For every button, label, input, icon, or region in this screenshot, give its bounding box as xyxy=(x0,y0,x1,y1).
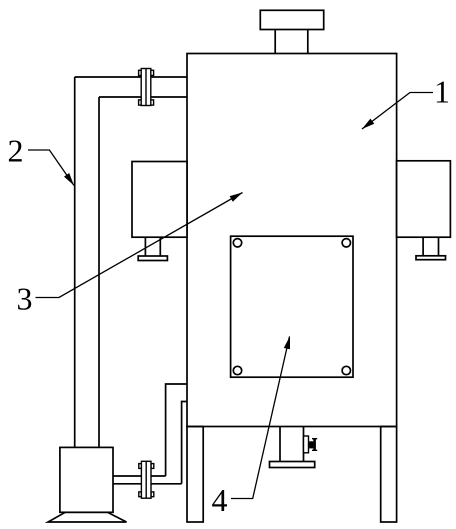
label 4 leader xyxy=(231,337,290,499)
top pipe flange plates xyxy=(141,69,151,106)
label 2 leader xyxy=(28,150,74,186)
svg-text:3: 3 xyxy=(17,281,33,317)
top nozzle neck xyxy=(275,30,308,54)
label 3 leader xyxy=(36,193,243,298)
panel 4 xyxy=(231,236,353,377)
left vertical pipe xyxy=(75,77,99,447)
tank body 1 xyxy=(187,54,397,427)
left box support foot xyxy=(138,256,167,261)
right box support foot xyxy=(416,256,446,260)
arrowhead 1 xyxy=(362,119,374,129)
bottom pipe flange bolts xyxy=(139,464,154,497)
svg-text:4: 4 xyxy=(212,482,228,518)
drain valve stem xyxy=(309,443,314,445)
riser pipe xyxy=(166,384,187,484)
label 1 leader xyxy=(362,93,433,130)
right box xyxy=(397,161,451,237)
arrowhead 3 xyxy=(230,193,243,202)
arrowhead 2 xyxy=(64,173,74,186)
bottom pipe flange plates xyxy=(141,461,151,498)
svg-text:2: 2 xyxy=(8,133,24,169)
drain valve handle xyxy=(313,439,316,451)
drain outlet body xyxy=(280,427,304,462)
left inlet pipe horizontal xyxy=(75,77,187,97)
pump body xyxy=(60,447,113,512)
top pipe flange bolts xyxy=(139,70,154,105)
left box xyxy=(132,162,187,238)
panel bolt hole top-right xyxy=(342,239,350,247)
drain outlet foot plate xyxy=(270,462,315,468)
panel bolt hole bottom-right xyxy=(342,366,350,374)
pump suction bell xyxy=(48,512,127,522)
drain valve body xyxy=(310,442,313,448)
panel bolt hole top-left xyxy=(233,239,241,247)
right box support stem xyxy=(423,237,438,256)
svg-text:1: 1 xyxy=(434,74,450,110)
left box support stem xyxy=(145,237,160,256)
drain valve flange xyxy=(304,436,309,453)
arrowhead 4 xyxy=(284,336,290,349)
right leg xyxy=(381,427,397,523)
top nozzle flange xyxy=(260,10,323,29)
panel bolt hole bottom-left xyxy=(233,366,241,374)
left leg xyxy=(187,427,203,523)
bottom pipe horizontal xyxy=(113,476,182,484)
